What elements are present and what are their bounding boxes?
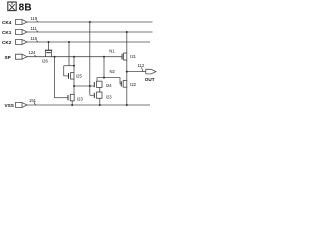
svg-text:I26: I26 — [42, 59, 48, 64]
wire VSS rail — [27, 104, 150, 106]
wire CK1 to I21 drain — [126, 32, 128, 53]
title figure label 8B — [8, 2, 32, 14]
junction dot CK4/gate column — [89, 21, 91, 23]
transistor I25 (diode connected with gate loop) — [64, 57, 83, 86]
svg-text:111: 111 — [31, 26, 38, 31]
junction dot mid node / CK2 column — [89, 85, 91, 87]
svg-text:SP: SP — [5, 55, 11, 60]
wire CK4 net — [27, 21, 153, 23]
wire N1 to N2 vertical — [103, 57, 105, 78]
transistor I21 (output, gate N1) — [122, 53, 137, 72]
input terminal VSS — [5, 103, 28, 109]
input terminal CK2 — [2, 40, 27, 46]
input terminal CK1 — [2, 30, 27, 36]
svg-text:I23: I23 — [77, 97, 83, 102]
svg-text:I23: I23 — [106, 94, 112, 99]
junction dot N1/I25 drain — [73, 56, 75, 58]
junction dot N2 tee — [103, 77, 105, 79]
transistor I23 (lower of stack) — [90, 92, 112, 105]
svg-text:124: 124 — [29, 50, 37, 55]
junction dot CK2/I25 branch — [68, 41, 70, 43]
wire mid node (I25 source to I24 gate region) — [74, 85, 94, 87]
svg-text:I25: I25 — [76, 74, 82, 79]
svg-text:N1: N1 — [109, 49, 115, 54]
wire CK1 net — [27, 31, 153, 33]
svg-text:I24: I24 — [106, 83, 112, 88]
wire OUT horizontal — [127, 71, 146, 73]
junction dot CK1 / I21 drain — [126, 31, 128, 33]
transistor I24 — [94, 81, 112, 92]
svg-text:I21: I21 — [130, 54, 136, 59]
junction dot I25 gate-drain tie — [73, 65, 75, 67]
input terminal SP — [5, 54, 28, 60]
output terminal OUT — [145, 69, 156, 82]
svg-text:CK4: CK4 — [2, 20, 12, 25]
junction dot I22 source / VSS — [126, 104, 128, 106]
transistor I26 (pass transistor in SP line, fed from CK2) — [42, 42, 52, 64]
svg-text:CK1: CK1 — [2, 30, 12, 35]
wire node N2 horizontal — [97, 78, 121, 84]
wire CK2 to I25 loop top — [68, 42, 70, 66]
svg-text:8B: 8B — [19, 3, 32, 14]
svg-text:112: 112 — [138, 63, 145, 68]
svg-text:151: 151 — [29, 98, 37, 103]
svg-text:CK2: CK2 — [2, 40, 12, 45]
input terminal CK4 — [2, 20, 27, 26]
svg-text:VSS: VSS — [5, 103, 14, 108]
wire CK4 gate column vertical — [89, 22, 91, 95]
wire CK2 net — [27, 41, 150, 43]
junction dot OUT node — [126, 71, 128, 73]
junction dot mid node left — [73, 85, 75, 87]
transistor I23 (bottom left) — [55, 86, 84, 105]
junction dot I23 source / VSS — [99, 104, 101, 106]
wire I23 gate branch vertical — [54, 57, 56, 98]
transistor I22 (pulldown, gate N2) — [121, 80, 137, 105]
junction dot CK2/I26 — [48, 41, 50, 43]
wire OUT to I22 drain — [126, 72, 128, 81]
wire SP / node N1 horizontal — [27, 56, 122, 58]
svg-text:I22: I22 — [130, 82, 136, 87]
svg-text:N2: N2 — [110, 69, 116, 74]
junction dot I23a source / VSS — [71, 104, 73, 106]
junction dot N1 column — [103, 56, 105, 58]
svg-text:OUT: OUT — [145, 77, 155, 82]
junction dot N1/I23 gate branch — [54, 56, 56, 58]
